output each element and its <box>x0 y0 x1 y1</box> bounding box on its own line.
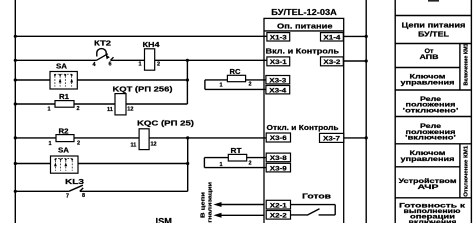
svg-text:Вкл. и Контроль: Вкл. и Контроль <box>266 47 340 56</box>
table separator y197.8 <box>395 197 471 199</box>
wire SA1 row <box>15 79 50 81</box>
svg-text:X3-4: X3-4 <box>269 88 287 94</box>
svg-text:6: 6 <box>109 61 112 67</box>
node junction X3-7/bus <box>365 136 368 139</box>
svg-text:RT: RT <box>231 148 243 155</box>
table separator y143.8 <box>395 143 471 145</box>
svg-text:Готов: Готов <box>302 191 332 200</box>
wire RT loop left vertical <box>203 158 205 168</box>
node junction bus row7 <box>14 190 17 193</box>
svg-text:X3-9: X3-9 <box>270 166 288 172</box>
svg-text:АЧР: АЧР <box>418 185 439 191</box>
table separator y43.5 <box>395 43 471 45</box>
svg-text:Откл. и Контроль: Откл. и Контроль <box>267 123 339 132</box>
wire top to X1-3 <box>15 35 267 37</box>
terminal X3-2 <box>321 57 344 66</box>
svg-text:X2-2: X2-2 <box>270 214 288 220</box>
terminal X1-3 <box>267 33 290 42</box>
table narrow cell divider lower <box>459 144 461 198</box>
terminal X3-6 <box>266 133 290 142</box>
svg-text:БУ/TEL-12-03А: БУ/TEL-12-03А <box>271 7 337 17</box>
node junction bus row5 <box>14 136 17 139</box>
table separator y116.5 <box>395 116 471 118</box>
resistor RT <box>228 154 246 161</box>
node junction bus row2 <box>14 59 17 62</box>
svg-text:8: 8 <box>82 193 85 199</box>
table left border <box>394 0 396 223</box>
wire header separator <box>264 30 344 32</box>
svg-text:X3-1: X3-1 <box>270 60 288 66</box>
svg-text:4: 4 <box>93 62 97 68</box>
svg-text:X2-1: X2-1 <box>270 203 288 209</box>
svg-text:2: 2 <box>77 141 80 147</box>
wire RC loop left vertical <box>204 80 206 90</box>
svg-text:КТ2: КТ2 <box>94 40 111 47</box>
svg-text:В цепи: В цепи <box>201 192 207 218</box>
wire X3-2 to right bus <box>344 60 367 62</box>
terminal X1-4 <box>321 33 344 42</box>
relay coil KH4 <box>145 49 155 70</box>
svg-text:R2: R2 <box>59 128 69 135</box>
resistor R2 <box>56 135 74 142</box>
svg-text:KQT (РП 256): KQT (РП 256) <box>113 87 173 94</box>
wire RT loop upper (X3-8) <box>204 157 266 159</box>
table text remnant top <box>428 0 439 2</box>
wire SA2 row <box>15 163 50 165</box>
wire X3-7 to right bus <box>344 137 367 139</box>
svg-text:X3-3: X3-3 <box>269 78 287 84</box>
node junction bus row6 <box>14 162 17 165</box>
contact KT2 (time-delay) <box>97 49 114 61</box>
node junction at X3-6 wire <box>186 136 189 139</box>
switch SA2 <box>51 156 79 173</box>
terminal X3-4 <box>266 86 290 95</box>
svg-text:SA: SA <box>58 148 69 155</box>
svg-text:X1-4: X1-4 <box>323 35 341 41</box>
svg-text:12: 12 <box>127 106 133 112</box>
svg-text:’отключено’: ’отключено’ <box>403 109 460 115</box>
svg-text:ISM: ISM <box>156 216 173 223</box>
svg-text:2: 2 <box>249 161 252 167</box>
svg-text:1: 1 <box>139 62 142 68</box>
svg-text:X3-7: X3-7 <box>323 137 341 143</box>
svg-text:АПВ: АПВ <box>420 55 440 61</box>
block BU/TEL outline <box>264 18 344 228</box>
resistor R1 <box>55 101 74 108</box>
svg-text:X1-3: X1-3 <box>270 35 288 41</box>
svg-text:RC: RC <box>230 69 241 76</box>
terminal X3-9 <box>266 163 290 172</box>
node junction X3-2/bus <box>365 59 368 62</box>
table separator y166.8 (left part) <box>395 166 460 168</box>
svg-text:1: 1 <box>220 162 223 168</box>
svg-text:KL3: KL3 <box>65 179 84 186</box>
svg-text:управления: управления <box>401 80 456 86</box>
svg-text:БУ/TEL: БУ/TEL <box>418 32 450 39</box>
contact KL3 <box>69 185 83 191</box>
wire left vertical bus <box>14 0 16 223</box>
svg-text:2: 2 <box>249 81 252 87</box>
node junction at SA1 wire <box>186 78 189 81</box>
wire R2/KQC row to X3-6 <box>15 137 267 139</box>
terminal X3-1 <box>267 57 290 66</box>
node junction at SA2 wire <box>186 162 189 165</box>
svg-text:2: 2 <box>157 62 160 68</box>
node junction bus/X1-3 wire <box>14 35 17 38</box>
svg-text:11: 11 <box>107 107 113 113</box>
wire junction vertical upper (to X3-1 wire) <box>186 60 188 104</box>
node junction bus row4 <box>14 102 17 105</box>
svg-text:Устройством: Устройством <box>399 178 458 185</box>
wire RT loop lower (X3-9) <box>204 167 266 169</box>
wire R1/KQT row <box>15 103 187 105</box>
terminal X2-2 <box>266 211 290 220</box>
svg-text:включения: включения <box>409 220 458 223</box>
terminal X3-3 <box>266 76 290 85</box>
terminal X2-1 <box>266 200 290 209</box>
wire RC loop upper (X3-3) <box>205 79 266 81</box>
svg-text:сигнализации: сигнализации <box>208 182 214 223</box>
wire right vertical bus <box>365 0 367 223</box>
wire KT2/KH4 row to X3-1 <box>15 59 96 61</box>
svg-text:Цепи питания: Цепи питания <box>402 22 466 29</box>
relay coil KQT <box>115 94 126 115</box>
svg-text:Включение КМ1: Включение КМ1 <box>464 43 470 85</box>
switch SA1 <box>50 72 77 90</box>
svg-text:’включено’: ’включено’ <box>405 136 457 142</box>
resistor RC <box>227 75 245 81</box>
terminal X3-8 <box>266 153 290 162</box>
wire junction vertical lower <box>187 138 189 191</box>
svg-text:7: 7 <box>66 194 69 200</box>
svg-text:2: 2 <box>77 106 80 112</box>
node junction bus row3 <box>14 78 17 81</box>
wire KL3 row <box>15 190 69 192</box>
wire X2-1 to signal circuits with arrow <box>221 204 264 206</box>
svg-text:X3-6: X3-6 <box>270 136 288 142</box>
svg-text:R1: R1 <box>59 94 69 101</box>
node junction at X3-1 wire <box>186 59 189 62</box>
svg-text:Оп. питание: Оп. питание <box>277 22 333 31</box>
wire RC loop lower (X3-4) <box>205 88 266 90</box>
svg-text:SA: SA <box>56 64 67 71</box>
svg-text:КН4: КН4 <box>143 42 160 49</box>
svg-text:1: 1 <box>48 107 51 113</box>
svg-text:1: 1 <box>49 141 52 147</box>
contact Gotov (ready) <box>291 205 336 216</box>
svg-text:управления: управления <box>401 157 456 163</box>
svg-text:12: 12 <box>151 142 157 148</box>
table narrow cell divider upper <box>459 44 461 91</box>
svg-text:Отключение КМ1: Отключение КМ1 <box>464 146 470 197</box>
wire X1-4 to right bus <box>344 35 367 37</box>
terminal X3-7 <box>320 133 344 142</box>
table right border <box>470 0 472 223</box>
table separator y67.5 (left part) <box>395 67 460 69</box>
svg-text:11: 11 <box>131 143 137 149</box>
svg-text:X3-8: X3-8 <box>270 156 288 162</box>
svg-text:X3-2: X3-2 <box>323 60 341 66</box>
wire X2-2 to signal circuits with arrow <box>221 214 264 216</box>
svg-text:KQC (РП 25): KQC (РП 25) <box>137 121 194 128</box>
svg-text:1: 1 <box>220 82 223 88</box>
relay coil KQC <box>139 129 149 150</box>
table separator y15.5 <box>395 15 471 17</box>
node junction X1-4/bus <box>365 35 368 38</box>
table separator y90 <box>395 89 471 91</box>
